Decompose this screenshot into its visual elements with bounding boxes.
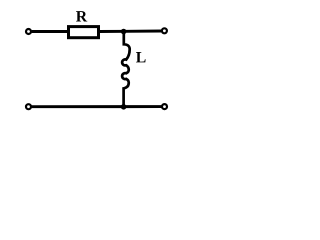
terminal bottom-right [162, 104, 167, 109]
wire bottom [32, 105, 162, 108]
terminal bottom-left [26, 104, 31, 109]
terminal top-right [162, 28, 167, 33]
wire top-left segment [32, 30, 68, 33]
node junction bottom [121, 104, 127, 110]
resistor R [69, 27, 99, 38]
node junction top [121, 29, 127, 35]
label R [76, 11, 87, 21]
terminal top-left [26, 29, 31, 34]
inductor L [122, 30, 130, 108]
wire top-right segment [100, 30, 162, 33]
label L [136, 52, 146, 62]
